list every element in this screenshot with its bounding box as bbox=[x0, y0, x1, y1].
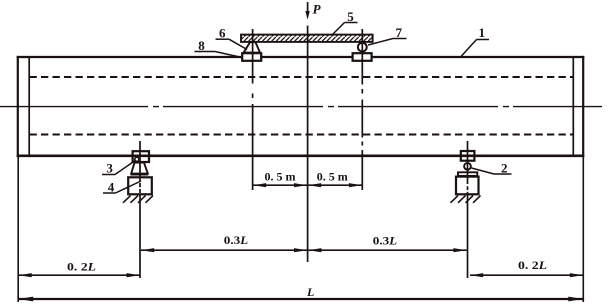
dimension 0.2L right bbox=[470, 258, 583, 277]
svg-text:6: 6 bbox=[219, 26, 226, 41]
left support block 4 bbox=[128, 177, 152, 194]
svg-text:0. 5 m: 0. 5 m bbox=[317, 170, 348, 184]
load arrow P bbox=[305, 2, 309, 20]
label 6 with leader bbox=[216, 26, 248, 50]
dimension 0.3L right bbox=[308, 234, 466, 253]
beam upper dashed line bbox=[30, 76, 574, 78]
svg-text:P: P bbox=[313, 1, 322, 16]
spreader beam 5 (hatched) bbox=[241, 35, 373, 42]
dimension 0.5 m left bbox=[253, 170, 307, 188]
right extension line (beam end) bbox=[582, 157, 584, 302]
label 1 with leader bbox=[461, 25, 489, 57]
right support load-cell square bbox=[461, 151, 475, 161]
beam lower dashed line bbox=[30, 134, 574, 136]
dimension 0.2L left bbox=[19, 260, 140, 278]
right support block bbox=[456, 177, 479, 195]
right loading block bbox=[353, 53, 372, 61]
beam 1 right edge bbox=[582, 56, 584, 157]
beam 1 top edge bbox=[17, 56, 585, 58]
dimension 0.5 m right bbox=[308, 170, 362, 188]
dimension 0.3L left bbox=[141, 233, 307, 252]
svg-text:1: 1 bbox=[478, 25, 485, 40]
left knife-edge wedge 6 bbox=[244, 42, 260, 52]
svg-text:4: 4 bbox=[108, 179, 115, 194]
beam right end inner line bbox=[572, 57, 574, 156]
dimension L overall bbox=[19, 285, 584, 302]
ground hatching right bbox=[451, 196, 481, 203]
right support center line bbox=[467, 141, 469, 278]
svg-text:2: 2 bbox=[501, 160, 508, 175]
right support roller circle 2 bbox=[464, 163, 471, 170]
left loading block 8 bbox=[242, 53, 261, 61]
left support wedge bbox=[131, 163, 148, 174]
label 5 with leader bbox=[332, 9, 358, 35]
beam 1 left edge bbox=[17, 56, 19, 157]
label 8 with leader bbox=[195, 38, 243, 58]
right load point line bbox=[361, 29, 363, 190]
beam left end inner line bbox=[28, 57, 30, 156]
svg-text:L: L bbox=[306, 285, 314, 299]
svg-text:0. 5 m: 0. 5 m bbox=[265, 170, 296, 184]
left support load-cell square 3 bbox=[133, 151, 149, 162]
svg-text:0. 2L: 0. 2L bbox=[67, 260, 96, 274]
label 2 with leader bbox=[472, 160, 512, 175]
central load line bbox=[307, 26, 309, 263]
left load point line bbox=[252, 29, 254, 190]
ground hatching left bbox=[123, 196, 153, 203]
beam 1 bottom edge bbox=[17, 155, 585, 158]
svg-text:0. 2L: 0. 2L bbox=[518, 258, 547, 272]
label 4 with leader bbox=[103, 179, 141, 194]
right roller circle 7 bbox=[358, 43, 367, 52]
right support plate bbox=[458, 172, 477, 176]
left extension line (beam end) bbox=[17, 157, 19, 302]
svg-text:3: 3 bbox=[106, 160, 113, 175]
svg-text:0.3L: 0.3L bbox=[224, 233, 249, 247]
label 7 with leader bbox=[368, 25, 407, 45]
left support small roller circle 3 bbox=[135, 157, 139, 161]
horizontal center line (dash-dot axis) bbox=[0, 106, 602, 108]
label 3 with leader bbox=[102, 160, 136, 175]
svg-text:0.3L: 0.3L bbox=[373, 234, 398, 248]
left support center line bbox=[139, 141, 141, 278]
left support base plate line bbox=[131, 174, 149, 176]
